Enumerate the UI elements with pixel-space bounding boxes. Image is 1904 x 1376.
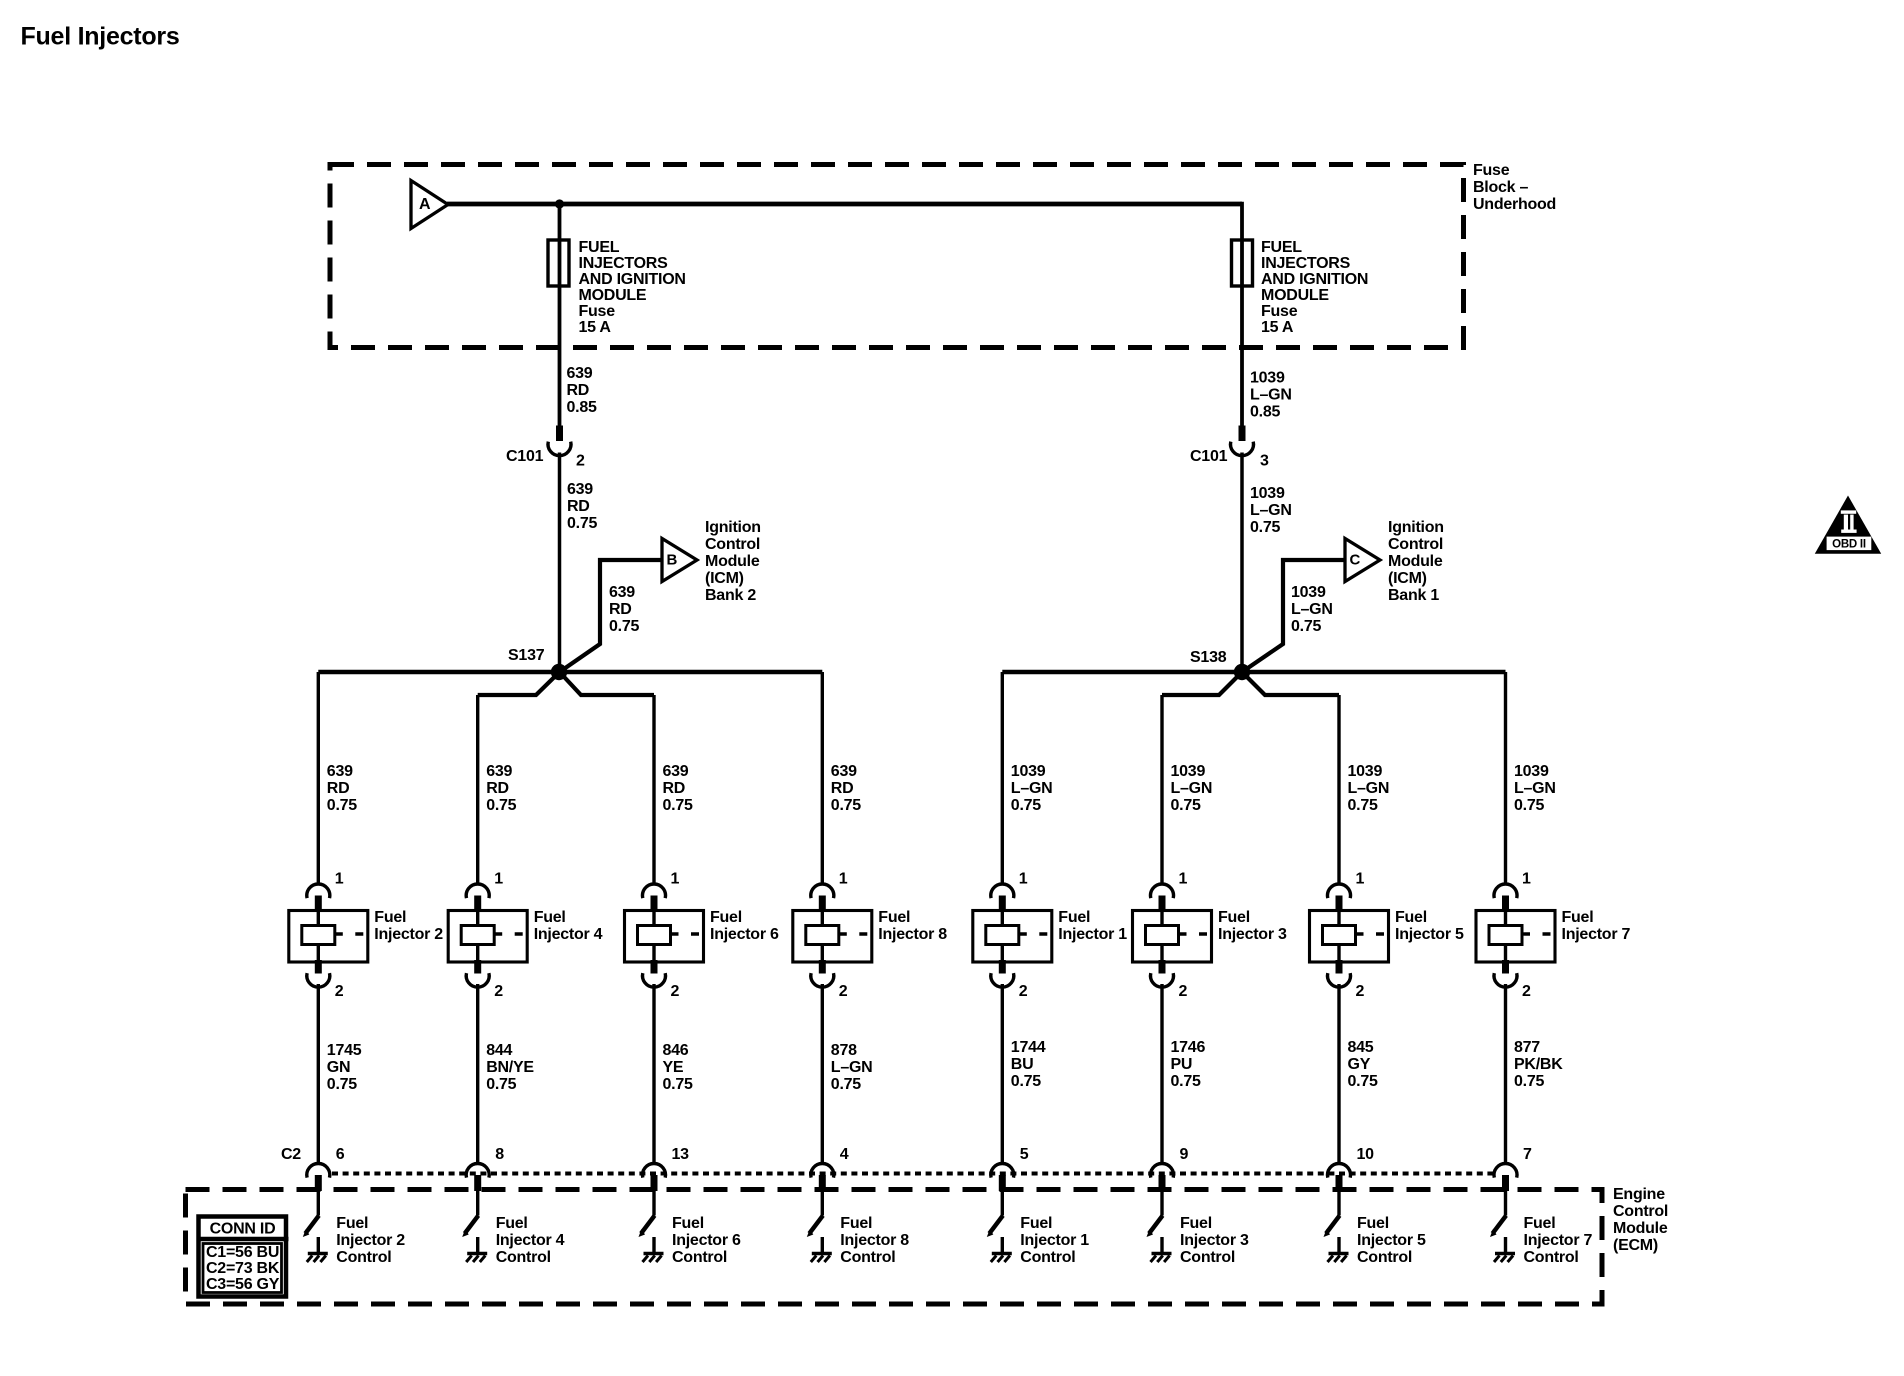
svg-text:Fuel: Fuel — [672, 1215, 704, 1232]
svg-text:1: 1 — [494, 871, 503, 888]
svg-text:1745: 1745 — [327, 1042, 362, 1059]
OBD II marker — [1815, 496, 1881, 554]
wire: junction down to fuse 1 and to C101 — [558, 204, 562, 427]
svg-text:0.75: 0.75 — [1011, 797, 1041, 814]
svg-text:13: 13 — [672, 1146, 690, 1163]
connector C2 dashed line — [332, 1172, 1494, 1176]
engine control module dashed box — [186, 1190, 1603, 1305]
svg-text:PK/BK: PK/BK — [1514, 1056, 1563, 1073]
svg-text:0.75: 0.75 — [1250, 519, 1280, 536]
svg-text:L–GN: L–GN — [1250, 387, 1292, 404]
branch wires from S137 — [478, 672, 560, 695]
ground (ECM internal) for Fuel Injector 7 — [1504, 1237, 1507, 1253]
svg-text:1039: 1039 — [1348, 763, 1383, 780]
svg-text:Fuel: Fuel — [496, 1215, 528, 1232]
svg-text:Fuel: Fuel — [374, 909, 406, 926]
svg-text:1: 1 — [1522, 871, 1531, 888]
svg-text:FUEL: FUEL — [1261, 239, 1302, 256]
svg-text:C3=56 GY: C3=56 GY — [206, 1276, 280, 1293]
Fuel Injector 3 (solenoid box) — [1133, 911, 1212, 963]
ground (ECM internal) for Fuel Injector 1 — [1001, 1237, 1004, 1253]
svg-text:Fuse: Fuse — [1473, 162, 1510, 179]
svg-text:AND IGNITION: AND IGNITION — [1261, 271, 1368, 288]
svg-text:1: 1 — [1019, 871, 1028, 888]
svg-text:C101: C101 — [506, 448, 544, 465]
wire: feed to Fuel Injector 3 — [1160, 695, 1163, 885]
pin 2 of Fuel Injector 2 — [315, 960, 322, 974]
svg-text:Control: Control — [1180, 1249, 1235, 1266]
wire: C101 to splice S138, 1039 L-GN 0.75 — [1240, 453, 1244, 673]
svg-text:3: 3 — [1260, 453, 1269, 470]
svg-text:Injector 4: Injector 4 — [534, 926, 603, 943]
branch wires from S138 — [1162, 672, 1242, 695]
svg-text:Ignition: Ignition — [1388, 519, 1444, 536]
connector triangle C — [1345, 539, 1380, 582]
svg-text:BU: BU — [1011, 1056, 1034, 1073]
svg-text:RD: RD — [831, 780, 854, 797]
svg-text:1: 1 — [1356, 871, 1365, 888]
svg-text:Injector 1: Injector 1 — [1058, 926, 1127, 943]
svg-text:Bank 1: Bank 1 — [1388, 587, 1439, 604]
svg-text:7: 7 — [1523, 1146, 1532, 1163]
svg-text:B: B — [667, 551, 678, 568]
svg-text:OBD II: OBD II — [1832, 539, 1866, 551]
svg-text:RD: RD — [663, 780, 686, 797]
ECM driver switch for Fuel Injector 7 — [1493, 1216, 1507, 1234]
svg-text:Module: Module — [1388, 553, 1443, 570]
svg-text:Control: Control — [705, 536, 760, 553]
svg-text:8: 8 — [495, 1146, 504, 1163]
wire: Fuel Injector 4 to ECM, 844 BN/YE 0.75 — [476, 984, 479, 1164]
wire: feed corner down to fuse 2 — [1240, 202, 1244, 427]
svg-text:Control: Control — [1613, 1203, 1668, 1220]
wire: feed to Fuel Injector 8 — [821, 672, 824, 885]
svg-text:2: 2 — [1356, 983, 1365, 1000]
svg-text:Fuel: Fuel — [1180, 1215, 1212, 1232]
svg-text:1039: 1039 — [1514, 763, 1549, 780]
connector C101 pin 2 — [556, 426, 563, 442]
svg-text:INJECTORS: INJECTORS — [1261, 255, 1351, 272]
svg-text:2: 2 — [671, 983, 680, 1000]
svg-text:RD: RD — [486, 780, 509, 797]
svg-text:(ICM): (ICM) — [705, 570, 744, 587]
Fuel Injector 6 (solenoid box) — [625, 911, 704, 963]
wire: splice S138 to triangle C — [1242, 560, 1345, 672]
svg-text:Injector 8: Injector 8 — [878, 926, 947, 943]
svg-text:1746: 1746 — [1171, 1039, 1206, 1056]
fuse block - underhood dashed box — [330, 165, 1464, 348]
ECM driver switch for Fuel Injector 3 — [1149, 1216, 1163, 1234]
svg-text:Control: Control — [1357, 1249, 1412, 1266]
svg-text:Control: Control — [1524, 1249, 1579, 1266]
svg-text:0.75: 0.75 — [1171, 797, 1201, 814]
ECM driver switch for Fuel Injector 4 — [465, 1216, 479, 1234]
connector C101 pin 3 — [1239, 426, 1246, 442]
svg-text:2: 2 — [1522, 983, 1531, 1000]
svg-text:Control: Control — [840, 1249, 895, 1266]
svg-text:Injector 4: Injector 4 — [496, 1232, 565, 1249]
svg-text:1039: 1039 — [1011, 763, 1046, 780]
ground (ECM internal) for Fuel Injector 4 — [476, 1237, 479, 1253]
svg-text:Fuel: Fuel — [1562, 909, 1594, 926]
svg-text:878: 878 — [831, 1042, 857, 1059]
svg-text:1: 1 — [1179, 871, 1188, 888]
svg-text:0.75: 0.75 — [609, 618, 639, 635]
svg-text:L–GN: L–GN — [831, 1059, 873, 1076]
fuse F1: FUEL INJECTORS AND IGNITION MODULE 15 A — [548, 240, 569, 286]
Fuel Injector 7 (solenoid box) — [1476, 911, 1555, 963]
ground (ECM internal) for Fuel Injector 6 — [652, 1237, 655, 1253]
wire: Fuel Injector 3 to ECM, 1746 PU 0.75 — [1160, 984, 1163, 1164]
svg-text:639: 639 — [609, 584, 635, 601]
Fuel Injector 4 (solenoid box) — [448, 911, 527, 963]
ECM driver switch for Fuel Injector 2 — [305, 1216, 319, 1234]
svg-text:S137: S137 — [508, 647, 545, 664]
ground (ECM internal) for Fuel Injector 8 — [821, 1237, 824, 1253]
svg-text:AND IGNITION: AND IGNITION — [579, 271, 686, 288]
svg-text:Fuse: Fuse — [579, 303, 616, 320]
svg-text:1: 1 — [671, 871, 680, 888]
svg-text:15 A: 15 A — [1261, 319, 1294, 336]
svg-text:RD: RD — [567, 498, 590, 515]
svg-text:L–GN: L–GN — [1171, 780, 1213, 797]
ground (ECM internal) for Fuel Injector 3 — [1160, 1237, 1163, 1253]
wire: feed to Fuel Injector 1 — [1001, 672, 1004, 885]
svg-text:C1=56 BU: C1=56 BU — [206, 1244, 279, 1261]
svg-text:Fuel: Fuel — [710, 909, 742, 926]
svg-text:0.75: 0.75 — [486, 797, 516, 814]
bus wire from S138 — [1002, 670, 1505, 675]
svg-text:CONN ID: CONN ID — [210, 1221, 276, 1238]
svg-text:2: 2 — [839, 983, 848, 1000]
wire: splice S137 to triangle B — [560, 560, 663, 672]
svg-text:INJECTORS: INJECTORS — [579, 255, 669, 272]
ECM driver switch for Fuel Injector 8 — [809, 1216, 823, 1234]
svg-text:Ignition: Ignition — [705, 519, 761, 536]
svg-text:Fuel: Fuel — [1218, 909, 1250, 926]
Fuel Injector 5 (solenoid box) — [1310, 911, 1389, 963]
wire: into ECM driver — [821, 1191, 824, 1216]
svg-text:Injector 7: Injector 7 — [1562, 926, 1631, 943]
svg-text:0.75: 0.75 — [831, 1076, 861, 1093]
wire: feed to Fuel Injector 5 — [1337, 695, 1340, 885]
wire: Fuel Injector 6 to ECM, 846 YE 0.75 — [652, 984, 655, 1164]
svg-text:845: 845 — [1348, 1039, 1374, 1056]
svg-text:0.85: 0.85 — [567, 399, 597, 416]
pin 2 of Fuel Injector 8 — [819, 960, 826, 974]
wire: Fuel Injector 1 to ECM, 1744 BU 0.75 — [1001, 984, 1004, 1164]
pin 2 of Fuel Injector 4 — [474, 960, 481, 974]
svg-text:0.75: 0.75 — [327, 1076, 357, 1093]
svg-text:639: 639 — [327, 763, 353, 780]
pin 2 of Fuel Injector 3 — [1159, 960, 1166, 974]
svg-text:6: 6 — [336, 1146, 345, 1163]
svg-text:MODULE: MODULE — [579, 287, 647, 304]
wire: into ECM driver — [1001, 1191, 1004, 1216]
wire: into ECM driver — [317, 1191, 320, 1216]
svg-text:0.75: 0.75 — [1291, 618, 1321, 635]
svg-text:0.75: 0.75 — [567, 515, 597, 532]
wire: into ECM driver — [476, 1191, 479, 1216]
svg-text:1039: 1039 — [1250, 370, 1285, 387]
bus wire from S137 — [318, 670, 822, 675]
svg-text:Underhood: Underhood — [1473, 196, 1556, 213]
pin 2 of Fuel Injector 5 — [1336, 960, 1343, 974]
Fuel Injector 1 (solenoid box) — [973, 911, 1052, 963]
junction node on feed wire — [555, 199, 564, 208]
svg-text:2: 2 — [494, 983, 503, 1000]
svg-text:RD: RD — [609, 601, 632, 618]
svg-text:1039: 1039 — [1291, 584, 1326, 601]
svg-text:Injector 8: Injector 8 — [840, 1232, 909, 1249]
svg-text:Fuel Injectors: Fuel Injectors — [21, 23, 180, 51]
svg-text:L–GN: L–GN — [1250, 502, 1292, 519]
wire: into ECM driver — [1337, 1191, 1340, 1216]
svg-text:1744: 1744 — [1011, 1039, 1046, 1056]
svg-text:0.75: 0.75 — [486, 1076, 516, 1093]
svg-text:(ICM): (ICM) — [1388, 570, 1427, 587]
wire: into ECM driver — [652, 1191, 655, 1216]
svg-text:Injector 6: Injector 6 — [710, 926, 779, 943]
pin 2 of Fuel Injector 7 — [1502, 960, 1509, 974]
svg-text:GN: GN — [327, 1059, 351, 1076]
svg-text:1039: 1039 — [1250, 485, 1285, 502]
svg-text:0.75: 0.75 — [1348, 1073, 1378, 1090]
svg-text:Injector 6: Injector 6 — [672, 1232, 741, 1249]
wire: main feed from A across top — [447, 202, 1242, 207]
svg-text:L–GN: L–GN — [1291, 601, 1333, 618]
svg-text:2: 2 — [335, 983, 344, 1000]
svg-text:Fuel: Fuel — [1357, 1215, 1389, 1232]
wire: feed to Fuel Injector 4 — [476, 695, 479, 885]
svg-text:Injector 5: Injector 5 — [1357, 1232, 1426, 1249]
svg-text:RD: RD — [327, 780, 350, 797]
svg-text:Fuel: Fuel — [1395, 909, 1427, 926]
ground (ECM internal) for Fuel Injector 2 — [317, 1237, 320, 1253]
svg-text:0.75: 0.75 — [327, 797, 357, 814]
svg-text:0.75: 0.75 — [663, 797, 693, 814]
svg-text:15 A: 15 A — [579, 319, 612, 336]
svg-text:A: A — [419, 196, 431, 213]
svg-text:1: 1 — [335, 871, 344, 888]
svg-text:0.75: 0.75 — [663, 1076, 693, 1093]
svg-text:639: 639 — [831, 763, 857, 780]
svg-text:4: 4 — [840, 1146, 849, 1163]
svg-text:(ECM): (ECM) — [1613, 1237, 1658, 1254]
svg-text:PU: PU — [1171, 1056, 1193, 1073]
fuse F2: FUEL INJECTORS AND IGNITION MODULE 15 A — [1232, 240, 1253, 286]
svg-text:2: 2 — [576, 453, 585, 470]
svg-text:S138: S138 — [1190, 649, 1227, 666]
pin 2 of Fuel Injector 1 — [999, 960, 1006, 974]
wire: feed to Fuel Injector 2 — [317, 672, 320, 885]
pin 2 of Fuel Injector 6 — [651, 960, 658, 974]
svg-text:FUEL: FUEL — [579, 239, 620, 256]
connector triangle B — [662, 539, 697, 582]
wire: feed to Fuel Injector 6 — [652, 695, 655, 885]
svg-text:Bank 2: Bank 2 — [705, 587, 756, 604]
svg-text:Control: Control — [336, 1249, 391, 1266]
svg-text:GY: GY — [1348, 1056, 1371, 1073]
wire: into ECM driver — [1504, 1191, 1507, 1216]
svg-text:1: 1 — [839, 871, 848, 888]
svg-text:Injector 5: Injector 5 — [1395, 926, 1464, 943]
wire: into ECM driver — [1160, 1191, 1163, 1216]
svg-text:Block –: Block – — [1473, 179, 1529, 196]
svg-text:Engine: Engine — [1613, 1186, 1665, 1203]
svg-text:877: 877 — [1514, 1039, 1540, 1056]
svg-text:L–GN: L–GN — [1348, 780, 1390, 797]
Fuel Injector 2 (solenoid box) — [289, 911, 368, 963]
connector triangle A — [411, 181, 448, 229]
ECM driver switch for Fuel Injector 5 — [1326, 1216, 1340, 1234]
svg-text:Fuel: Fuel — [1020, 1215, 1052, 1232]
wire: Fuel Injector 7 to ECM, 877 PK/BK 0.75 — [1504, 984, 1507, 1164]
Fuel Injector 8 (solenoid box) — [793, 911, 872, 963]
svg-text:Fuel: Fuel — [336, 1215, 368, 1232]
svg-text:1039: 1039 — [1171, 763, 1206, 780]
svg-text:639: 639 — [486, 763, 512, 780]
svg-text:Injector 2: Injector 2 — [374, 926, 443, 943]
svg-text:0.75: 0.75 — [1171, 1073, 1201, 1090]
svg-text:639: 639 — [567, 365, 593, 382]
svg-text:Fuel: Fuel — [1058, 909, 1090, 926]
svg-text:10: 10 — [1357, 1146, 1375, 1163]
svg-text:Injector 2: Injector 2 — [336, 1232, 405, 1249]
svg-text:Fuel: Fuel — [534, 909, 566, 926]
svg-text:Injector 3: Injector 3 — [1180, 1232, 1249, 1249]
svg-text:MODULE: MODULE — [1261, 287, 1329, 304]
svg-text:639: 639 — [567, 481, 593, 498]
svg-text:YE: YE — [663, 1059, 684, 1076]
svg-text:Control: Control — [1020, 1249, 1075, 1266]
svg-text:Module: Module — [705, 553, 760, 570]
svg-text:Fuel: Fuel — [840, 1215, 872, 1232]
svg-text:Injector 7: Injector 7 — [1524, 1232, 1593, 1249]
svg-text:Control: Control — [1388, 536, 1443, 553]
svg-text:L–GN: L–GN — [1514, 780, 1556, 797]
svg-text:C: C — [1350, 551, 1361, 568]
svg-text:844: 844 — [486, 1042, 512, 1059]
svg-text:846: 846 — [663, 1042, 689, 1059]
ground (ECM internal) for Fuel Injector 5 — [1337, 1237, 1340, 1253]
wire: C101 to splice S137, 639 RD 0.75 — [558, 453, 562, 673]
svg-text:Injector 1: Injector 1 — [1020, 1232, 1089, 1249]
svg-text:Module: Module — [1613, 1220, 1668, 1237]
svg-text:0.75: 0.75 — [1011, 1073, 1041, 1090]
svg-text:Fuse: Fuse — [1261, 303, 1298, 320]
svg-text:0.75: 0.75 — [1348, 797, 1378, 814]
svg-text:C101: C101 — [1190, 448, 1228, 465]
svg-text:C2: C2 — [281, 1146, 301, 1163]
svg-text:0.75: 0.75 — [1514, 1073, 1544, 1090]
wire: Fuel Injector 5 to ECM, 845 GY 0.75 — [1337, 984, 1340, 1164]
svg-text:0.75: 0.75 — [1514, 797, 1544, 814]
svg-text:5: 5 — [1020, 1146, 1029, 1163]
svg-text:C2=73 BK: C2=73 BK — [206, 1260, 280, 1277]
wire: Fuel Injector 8 to ECM, 878 L–GN 0.75 — [821, 984, 824, 1164]
svg-text:9: 9 — [1180, 1146, 1189, 1163]
svg-text:639: 639 — [663, 763, 689, 780]
wire: feed to Fuel Injector 7 — [1504, 672, 1507, 885]
svg-text:Control: Control — [496, 1249, 551, 1266]
svg-text:2: 2 — [1179, 983, 1188, 1000]
wire: Fuel Injector 2 to ECM, 1745 GN 0.75 — [317, 984, 320, 1164]
svg-text:Fuel: Fuel — [878, 909, 910, 926]
svg-text:2: 2 — [1019, 983, 1028, 1000]
svg-text:RD: RD — [567, 382, 590, 399]
svg-text:Control: Control — [672, 1249, 727, 1266]
ECM driver switch for Fuel Injector 1 — [989, 1216, 1003, 1234]
svg-text:Fuel: Fuel — [1524, 1215, 1556, 1232]
svg-text:0.75: 0.75 — [831, 797, 861, 814]
svg-text:L–GN: L–GN — [1011, 780, 1053, 797]
ECM driver switch for Fuel Injector 6 — [641, 1216, 655, 1234]
svg-text:BN/YE: BN/YE — [486, 1059, 534, 1076]
svg-text:Injector 3: Injector 3 — [1218, 926, 1287, 943]
CONN ID table — [199, 1217, 287, 1297]
svg-text:0.85: 0.85 — [1250, 404, 1280, 421]
